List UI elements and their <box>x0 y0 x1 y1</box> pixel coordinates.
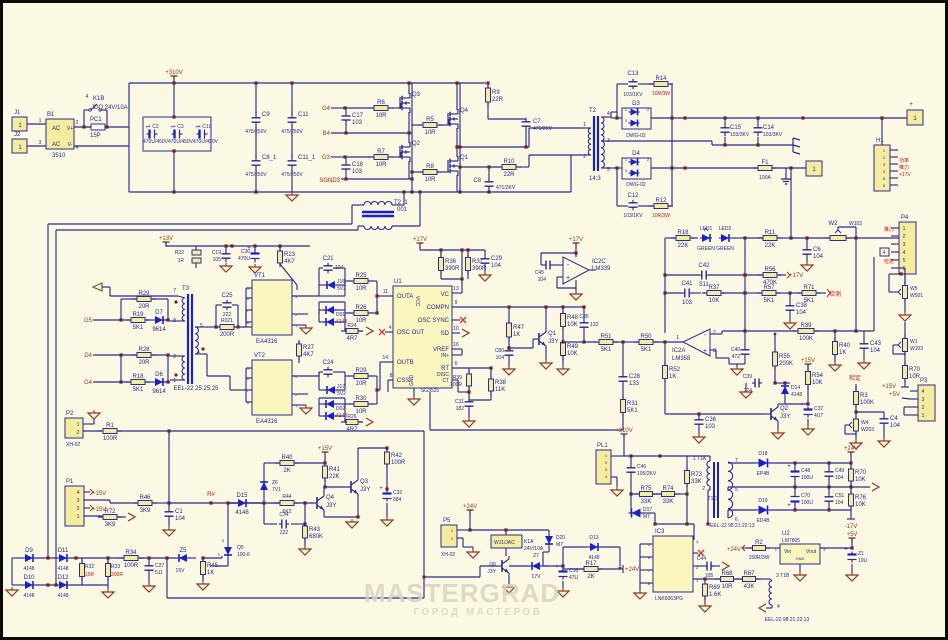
svg-text:Q1: Q1 <box>548 331 557 337</box>
transistor Q6 J3Y <box>501 560 503 572</box>
svg-text:5: 5 <box>735 487 738 493</box>
svg-text:9614: 9614 <box>152 327 166 333</box>
wire Q2 base node <box>785 403 808 405</box>
svg-text:6: 6 <box>455 361 458 367</box>
resistor R10 22R <box>497 166 521 168</box>
svg-text:R48: R48 <box>567 315 579 321</box>
wire W2 node down <box>855 238 857 331</box>
wire snubber D3 <box>616 84 618 118</box>
net stub p4 pin4 <box>880 248 889 256</box>
resistor R67 43K <box>738 578 761 580</box>
svg-text:103: 103 <box>705 424 716 430</box>
ground C27 <box>148 583 150 586</box>
resistor R33 200R <box>107 560 109 581</box>
ground R69 <box>704 603 706 606</box>
svg-text:U1: U1 <box>394 279 402 285</box>
svg-text:AC: AC <box>52 126 61 132</box>
svg-text:R17: R17 <box>585 561 597 567</box>
svg-text:C48: C48 <box>801 468 810 474</box>
MOSFET Q3 <box>399 97 401 109</box>
svg-text:+: + <box>800 402 804 408</box>
svg-text:R44: R44 <box>282 494 291 500</box>
wire Q6 base from R1 line <box>480 565 497 567</box>
svg-text:15P: 15P <box>90 133 101 139</box>
ground P2 top <box>93 410 95 413</box>
wire fb line to R39 <box>745 330 796 332</box>
svg-text:4: 4 <box>389 325 392 331</box>
svg-text:C11: C11 <box>298 112 309 118</box>
svg-text:+: + <box>787 464 791 470</box>
svg-text:R23: R23 <box>284 252 296 258</box>
svg-text:470U/450V: 470U/450V <box>143 139 169 145</box>
ground C43 <box>863 360 865 363</box>
svg-text:C24: C24 <box>322 360 334 366</box>
ground arrow mid tap <box>872 483 879 491</box>
resistor R26 10R <box>349 312 373 314</box>
svg-text:GND: GND <box>409 375 415 387</box>
svg-text:EP4B: EP4B <box>757 471 770 477</box>
svg-text:R36: R36 <box>445 259 457 265</box>
resistor R14 10R/3W <box>649 83 673 85</box>
arrow T1B return <box>759 604 766 612</box>
svg-text:R8: R8 <box>426 164 434 170</box>
svg-text:+15V: +15V <box>318 446 332 452</box>
svg-text:V-: V- <box>68 142 73 148</box>
svg-text:D11: D11 <box>58 548 69 554</box>
svg-text:C30: C30 <box>241 249 250 255</box>
wire H1 to output <box>881 118 883 145</box>
svg-text:+310V: +310V <box>615 428 633 434</box>
svg-text:4148: 4148 <box>23 593 34 599</box>
svg-text:4148: 4148 <box>235 510 249 516</box>
svg-text:XH-02: XH-02 <box>441 552 455 558</box>
svg-text:4: 4 <box>77 490 80 496</box>
svg-text:C12: C12 <box>627 193 639 199</box>
capacitor C8 471/2KV <box>488 179 490 182</box>
ground C39 <box>745 389 747 392</box>
svg-text:D20: D20 <box>556 535 565 541</box>
svg-text:COMPN: COMPN <box>427 305 449 311</box>
power +15V Q3 <box>324 452 326 457</box>
svg-text:R71: R71 <box>803 285 815 291</box>
resistor R3 100K <box>855 388 857 409</box>
svg-text:Vout: Vout <box>806 549 817 555</box>
svg-text:+13V: +13V <box>159 236 173 242</box>
svg-text:R18: R18 <box>677 230 689 236</box>
diode D10 4148 <box>22 584 36 586</box>
ground Z1 <box>851 572 853 575</box>
ground VT2 pin1 <box>305 405 307 408</box>
svg-text:D17: D17 <box>643 507 652 513</box>
svg-text:33K: 33K <box>663 499 674 505</box>
pin OSC SYNC no-connect <box>452 319 460 321</box>
svg-text:+ C3: + C3 <box>173 124 184 130</box>
resistor R48 10K <box>562 310 564 331</box>
capacitor C25 222 <box>226 300 228 303</box>
svg-text:100A: 100A <box>759 175 771 181</box>
svg-text:3K9: 3K9 <box>140 508 151 514</box>
resistor R5 10R <box>418 124 442 126</box>
svg-text:4K7: 4K7 <box>303 352 314 358</box>
bridge rectifier B1 <box>46 119 74 149</box>
svg-text:D19: D19 <box>758 498 767 504</box>
wire P1 pin3 <box>84 499 110 501</box>
wire P3 grounds <box>904 406 910 408</box>
svg-text:R40: R40 <box>281 455 293 461</box>
capacitor C1 104 <box>168 509 170 512</box>
svg-text:1R: 1R <box>178 258 185 264</box>
svg-text:C46: C46 <box>637 464 646 470</box>
ground IC2C <box>575 280 577 291</box>
svg-text:680K: 680K <box>309 534 323 540</box>
svg-text:EEL-22 98:21:22:13: EEL-22 98:21:22:13 <box>710 523 755 529</box>
svg-text:103/3KV: 103/3KV <box>763 132 783 138</box>
svg-text:4: 4 <box>777 604 780 610</box>
svg-text:P5: P5 <box>443 518 451 524</box>
svg-text:471/2KV: 471/2KV <box>533 126 553 132</box>
svg-text:R12: R12 <box>655 198 667 204</box>
transformer T1 windings <box>707 461 710 486</box>
svg-text:5: 5 <box>903 258 906 264</box>
svg-text:33K: 33K <box>691 479 702 485</box>
connector output plus <box>907 110 923 125</box>
svg-text:4148: 4148 <box>23 566 34 572</box>
svg-text:+17V: +17V <box>413 237 427 243</box>
diode D12 4148 <box>56 584 70 586</box>
svg-text:Q6: Q6 <box>489 562 496 568</box>
svg-text:47U: 47U <box>569 575 579 581</box>
svg-text:200R: 200R <box>220 332 235 338</box>
svg-text:B4: B4 <box>323 131 331 137</box>
resistor R45 1K <box>202 558 204 579</box>
capacitor C70 100U <box>794 494 796 497</box>
capacitor C7 471/2KV <box>525 118 527 122</box>
svg-text:R10: R10 <box>503 159 515 165</box>
wire left sense vertical A <box>47 224 49 558</box>
svg-text:R27: R27 <box>303 345 315 351</box>
diode D17 M7 <box>629 512 644 514</box>
svg-text:105/2KV: 105/2KV <box>637 471 657 477</box>
resistor R36 390R <box>440 254 442 275</box>
thyristor Q5 100-6 <box>227 545 229 557</box>
capacitor C6 104 <box>806 247 808 250</box>
svg-text:R28: R28 <box>138 347 150 353</box>
svg-text:222: 222 <box>280 530 289 536</box>
svg-text:R29: R29 <box>355 368 367 374</box>
svg-text:XH-02: XH-02 <box>66 442 80 448</box>
svg-text:20R: 20R <box>138 304 150 310</box>
ground Q6 <box>508 584 510 587</box>
wire U2 out <box>820 547 852 549</box>
svg-text:R47: R47 <box>513 325 525 331</box>
svg-text:LED1: LED1 <box>700 226 713 232</box>
svg-text:+15V: +15V <box>92 491 106 497</box>
svg-text:K1B: K1B <box>93 96 104 102</box>
svg-text:16: 16 <box>453 342 459 348</box>
zener Z5 15V <box>176 557 190 559</box>
capacitor C42 711 <box>699 274 702 276</box>
resistor PC1 15P <box>84 126 91 128</box>
svg-text:C19: C19 <box>212 250 221 256</box>
svg-text:W501: W501 <box>910 293 923 299</box>
svg-text:D6: D6 <box>155 372 163 378</box>
svg-text:22K: 22K <box>678 243 689 249</box>
wire parallel stubs <box>120 355 122 382</box>
svg-text:C70: C70 <box>801 493 810 499</box>
svg-text:511: 511 <box>155 570 163 576</box>
power +310V PL1 <box>623 434 625 439</box>
border frame <box>0 0 948 3</box>
svg-text:2K: 2K <box>283 468 290 474</box>
svg-text:R67: R67 <box>743 571 755 577</box>
svg-text:43K: 43K <box>744 584 755 590</box>
svg-text:R51: R51 <box>600 334 612 340</box>
svg-text:W2: W2 <box>829 221 839 227</box>
svg-text:20R: 20R <box>138 360 150 366</box>
svg-text:R57: R57 <box>763 285 775 291</box>
connector PL1 <box>596 450 611 484</box>
svg-text:10K: 10K <box>855 502 866 508</box>
svg-text:5K1: 5K1 <box>133 387 144 393</box>
resistor R51 5K1 <box>594 341 618 343</box>
svg-text:150R/3W: 150R/3W <box>749 555 770 561</box>
resistor R68 10R <box>716 578 739 580</box>
resistor R29 20R <box>132 298 156 300</box>
resistor R57a 10K <box>702 292 726 294</box>
svg-text:C6: C6 <box>813 247 821 253</box>
svg-text:10R: 10R <box>424 130 436 136</box>
resistor R75 33K <box>635 493 658 495</box>
resistor R31 5K1 <box>622 396 624 417</box>
capacitor C49 104 <box>828 469 830 472</box>
wire Q5 anode up <box>227 519 229 538</box>
resistor R71 5K1 <box>797 292 821 294</box>
svg-text:+: + <box>787 503 791 509</box>
ground C40 drop <box>729 363 745 365</box>
resistor R18 5K1 <box>126 381 150 383</box>
svg-text:11K: 11K <box>495 387 505 393</box>
arrow net left <box>93 283 102 291</box>
svg-text:C32: C32 <box>393 490 402 496</box>
svg-text:Q4: Q4 <box>326 495 335 501</box>
capacitor C43 104 <box>863 341 865 344</box>
svg-text:+310V: +310V <box>165 70 183 76</box>
ground C6 <box>806 262 808 265</box>
svg-text:G3: G3 <box>322 155 331 161</box>
svg-text:C11_1: C11_1 <box>298 155 316 161</box>
svg-text:+: + <box>555 564 559 570</box>
svg-text:3: 3 <box>903 242 906 248</box>
ground R33 <box>107 589 109 592</box>
svg-text:5: 5 <box>200 323 203 329</box>
wire PL1 to C46 rail <box>624 455 660 457</box>
wire PC1 to bus <box>107 126 129 128</box>
svg-text:D01: D01 <box>336 312 345 318</box>
svg-text:R72: R72 <box>104 509 116 515</box>
resistor R40b 2K <box>275 462 299 464</box>
svg-text:M7: M7 <box>643 514 650 520</box>
svg-text:R73: R73 <box>691 472 703 478</box>
svg-text:EEL-22 25:25:25: EEL-22 25:25:25 <box>173 386 219 392</box>
connector H1 <box>874 145 890 191</box>
svg-text:D14: D14 <box>791 385 800 391</box>
wire snubber D4 <box>616 168 618 206</box>
resistor R17 2K <box>579 568 603 570</box>
pin3 no connect <box>693 552 698 554</box>
wire T2 sec to rectifiers <box>606 116 611 118</box>
svg-text:104: 104 <box>538 277 547 283</box>
wire to U1 fb <box>429 392 431 430</box>
svg-text:22K: 22K <box>329 474 340 480</box>
wire IC3 pin1 <box>693 578 720 580</box>
svg-text:+17V: +17V <box>569 237 583 243</box>
resistor R54 10K <box>807 368 809 389</box>
svg-text:R68: R68 <box>721 571 733 577</box>
svg-text:ED4B: ED4B <box>756 518 770 524</box>
wire P4 pin6 loop <box>899 267 905 269</box>
svg-text:D15: D15 <box>236 493 248 499</box>
capacitor C41 103 <box>682 292 685 294</box>
transistor Q3b J3Y <box>350 481 352 493</box>
capacitor C40 472 <box>744 347 746 350</box>
ground arrow R72 <box>128 513 135 521</box>
svg-text:Q2: Q2 <box>412 141 421 147</box>
svg-text:2: 2 <box>903 234 906 240</box>
svg-text:R14: R14 <box>655 76 667 82</box>
wire B1 V+ node <box>74 126 91 128</box>
wire R10 to T2 pin2 <box>528 155 530 167</box>
ground C31 <box>468 418 470 421</box>
svg-text:5V2: 5V2 <box>337 391 346 397</box>
resistor R13 22K <box>671 237 695 239</box>
resistor R24b 4R7 <box>341 330 363 332</box>
capacitor bank outline <box>143 117 211 151</box>
svg-text:4148: 4148 <box>57 566 68 572</box>
pin 16 VREF <box>452 348 462 350</box>
svg-text:+: + <box>909 102 913 108</box>
svg-text:C37: C37 <box>814 406 823 412</box>
svg-text:D4: D4 <box>84 353 92 359</box>
svg-text:R3: R3 <box>860 393 868 399</box>
svg-text:1K: 1K <box>207 570 214 576</box>
svg-text:1 T1A: 1 T1A <box>693 456 707 462</box>
resistor R12 10R/3W <box>649 205 673 207</box>
svg-text:103/1KV: 103/1KV <box>623 213 643 219</box>
svg-text:10R/3W: 10R/3W <box>652 91 670 97</box>
wire Z7 to C16 <box>543 565 563 567</box>
ground R43 <box>304 546 306 549</box>
svg-text:10: 10 <box>453 326 459 332</box>
capacitor C34 222 <box>279 523 282 525</box>
svg-text:R75: R75 <box>640 486 652 492</box>
svg-text:001: 001 <box>397 207 408 213</box>
svg-text:22R: 22R <box>492 97 504 103</box>
svg-text:LED2: LED2 <box>719 226 732 232</box>
svg-text:P2: P2 <box>66 411 74 417</box>
pin OSC OUT x <box>385 331 393 333</box>
svg-text:2: 2 <box>76 120 79 126</box>
connector output minus <box>806 161 822 176</box>
svg-text:C39: C39 <box>743 374 752 380</box>
svg-text:+15V: +15V <box>801 358 815 364</box>
svg-text:M7: M7 <box>556 542 563 548</box>
svg-text:100R: 100R <box>391 460 406 466</box>
wire Q4 emitter ground rail <box>324 516 358 518</box>
svg-text:24V/10A: 24V/10A <box>524 546 544 552</box>
svg-text:DWG-02: DWG-02 <box>626 182 646 188</box>
connector P4 <box>899 222 916 274</box>
svg-text:W5: W5 <box>910 286 918 292</box>
svg-text:R70: R70 <box>855 470 867 476</box>
svg-text:10K: 10K <box>812 380 823 386</box>
svg-text:R34: R34 <box>125 550 137 556</box>
svg-text:100K: 100K <box>799 336 813 342</box>
capacitor C12 103/1KV <box>632 200 634 203</box>
capacitor C8_1 475/250V <box>255 155 257 161</box>
diode D6 9614 <box>152 381 166 383</box>
svg-text:GND: GND <box>796 556 805 561</box>
power +17V U1 <box>419 243 421 248</box>
svg-text:8: 8 <box>390 373 393 379</box>
wire to T2 pin1 <box>525 129 527 147</box>
svg-text:C40: C40 <box>731 347 740 353</box>
svg-text:C27: C27 <box>155 563 164 569</box>
svg-text:182: 182 <box>456 406 465 412</box>
ground C38 <box>789 320 791 323</box>
svg-text:10R/3W: 10R/3W <box>652 213 670 219</box>
svg-text:W1: W1 <box>910 339 918 345</box>
wire return bus right <box>375 191 571 193</box>
svg-text:C28: C28 <box>629 374 641 380</box>
svg-text:1: 1 <box>77 422 80 428</box>
svg-text:Q2: Q2 <box>780 406 789 412</box>
svg-text:R19: R19 <box>132 312 144 318</box>
svg-text:3: 3 <box>77 498 80 504</box>
resistor R23 4K7 <box>279 247 281 267</box>
svg-text:R29: R29 <box>138 291 150 297</box>
ground C80 <box>508 366 510 369</box>
svg-text:R26: R26 <box>355 305 367 311</box>
svg-text:G4: G4 <box>322 106 331 112</box>
svg-text:100U: 100U <box>801 500 813 506</box>
svg-text:10R: 10R <box>355 286 367 292</box>
capacitor C14 103/3KV <box>757 124 759 128</box>
svg-text:472: 472 <box>732 354 741 360</box>
svg-text:F1: F1 <box>761 160 769 166</box>
diode pair D1 4148 <box>323 309 337 311</box>
MOSFET Q4 <box>447 113 449 125</box>
wire fb bus vertical R <box>744 238 746 331</box>
ground PL1 <box>616 487 618 490</box>
svg-text:22R: 22R <box>503 172 515 178</box>
power -17V T1 <box>850 510 852 519</box>
svg-text:R32: R32 <box>85 564 94 570</box>
svg-text:GREEN: GREEN <box>716 246 734 252</box>
wire return to T2 <box>570 155 572 192</box>
resistor R56 470K <box>758 274 782 276</box>
resistor R72 3K9 <box>98 516 122 518</box>
svg-text:103: 103 <box>352 169 363 175</box>
ground C37 <box>807 426 809 429</box>
capacitor C37 4U7 <box>807 407 809 410</box>
diode pair D2 4148 <box>323 403 337 405</box>
resistor R73 33K <box>686 467 688 488</box>
svg-text:1K: 1K <box>839 350 846 356</box>
svg-text:Q1: Q1 <box>460 155 469 161</box>
capacitor C11 475/250V <box>291 112 293 118</box>
svg-text:+17V: +17V <box>899 172 911 178</box>
svg-text:200K: 200K <box>779 361 793 367</box>
